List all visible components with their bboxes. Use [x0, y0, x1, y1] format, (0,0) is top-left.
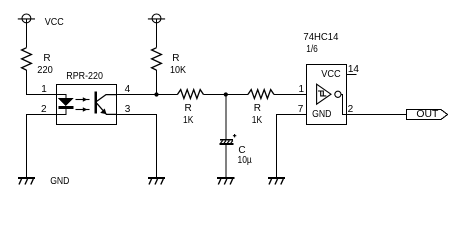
wire VCC2 to R2 — [156, 19, 158, 48]
wire U1 pin7 to ground — [277, 115, 307, 178]
svg-text:RPR-220: RPR-220 — [66, 71, 103, 82]
capacitor C1 minus plate — [220, 143, 234, 145]
net label OUT tag — [407, 110, 448, 120]
svg-text:10µ: 10µ — [238, 155, 252, 166]
inverter triangle U1 — [317, 84, 331, 104]
capacitor C1 hatch — [221, 141, 233, 143]
resistor R4 (R 1K) — [248, 90, 274, 99]
phototransistor Q1 base bar — [95, 92, 97, 114]
svg-text:14: 14 — [348, 64, 360, 75]
wire R4 to U1 pin1 — [274, 94, 307, 96]
svg-text:VCC: VCC — [45, 17, 64, 28]
ground GND2 — [148, 178, 165, 185]
svg-text:10K: 10K — [170, 65, 186, 76]
LED D1 anode triangle — [59, 98, 73, 105]
wire R3 to node B — [204, 94, 226, 96]
wire node A to R3 — [157, 94, 178, 96]
svg-text:GND: GND — [50, 176, 69, 187]
light arrow 2 — [76, 107, 90, 112]
phototransistor collector to pin4 — [97, 95, 117, 102]
node: RPR-220 box — [57, 85, 117, 125]
junction node B — [224, 92, 228, 96]
svg-text:1: 1 — [41, 84, 47, 95]
capacitor C1 plus plate — [220, 139, 233, 141]
svg-text:1K: 1K — [252, 115, 263, 126]
wire U1 pin2 to OUT tag — [347, 114, 407, 116]
svg-text:2: 2 — [41, 104, 47, 115]
svg-text:R: R — [185, 103, 192, 114]
svg-text:VCC: VCC — [321, 69, 341, 80]
svg-text:R: R — [254, 103, 261, 114]
junction node A — [154, 92, 158, 96]
wire VCC1 to R1 — [26, 19, 28, 48]
resistor R2 (R 10K) — [152, 48, 162, 70]
wire C1 to ground — [225, 145, 227, 177]
wire RPR pin2 to ground — [27, 115, 57, 178]
phototransistor emitter to pin3 — [97, 103, 117, 114]
schmitt hysteresis mark — [318, 91, 326, 96]
svg-text:4: 4 — [125, 84, 131, 95]
svg-text:3: 3 — [125, 104, 131, 115]
wire RPR pin3 to ground — [117, 115, 157, 178]
light arrow 1 — [76, 97, 90, 102]
svg-text:GND: GND — [312, 109, 331, 120]
capacitor plus sign — [233, 134, 236, 137]
power symbol VCC (left) — [18, 14, 35, 23]
svg-text:2: 2 — [348, 104, 354, 115]
svg-text:1K: 1K — [183, 115, 194, 126]
svg-text:OUT: OUT — [416, 109, 438, 120]
wire node B to R4 — [226, 94, 248, 96]
ground GND3 — [217, 178, 234, 185]
wire LED cathode to pin2 — [65, 109, 67, 115]
wire RPR pin4 to node A — [117, 94, 157, 96]
inverter bubble — [335, 91, 341, 97]
resistor R3 (R 1K) — [177, 90, 203, 99]
svg-text:74HC14: 74HC14 — [303, 32, 338, 43]
svg-text:7: 7 — [298, 104, 304, 115]
wire R1 to RPR pin1 — [27, 70, 57, 94]
power symbol VCC (middle) — [148, 14, 165, 23]
svg-text:R: R — [43, 53, 50, 64]
ground GND1 — [18, 178, 35, 185]
wire LED anode (pin1 internal) — [57, 94, 67, 96]
ground GND4 — [268, 178, 285, 185]
pin14 stub — [347, 74, 357, 76]
wire bubble to pin2 — [341, 94, 347, 114]
LED D1 cathode bar — [59, 106, 74, 109]
IC U1 74HC14 box — [307, 65, 347, 125]
svg-text:1: 1 — [299, 84, 305, 95]
svg-text:R: R — [172, 53, 179, 64]
wire R2 to node A — [156, 70, 158, 94]
svg-text:220: 220 — [37, 65, 53, 76]
svg-text:1/6: 1/6 — [306, 44, 318, 55]
emitter arrowhead — [100, 109, 106, 115]
resistor R1 (R 220) — [22, 48, 32, 70]
wire node B to capacitor C1 — [225, 95, 227, 140]
